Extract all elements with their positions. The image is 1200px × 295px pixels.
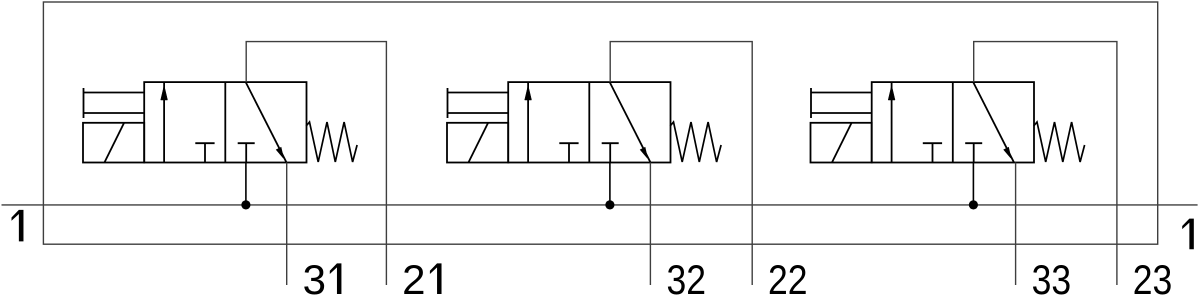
pilot/output wire 22 [610,42,752,285]
manifold frame [43,2,1157,244]
solenoid Y1 coil diagonal [105,123,125,162]
V3 flow path 2-3 diagonal with arrow (right square) [973,82,1014,163]
V3 flow path arrow 1-2 (left square) [891,83,893,163]
node 1 label (left) [12,210,24,242]
V3 blocked port T (right square) [965,143,982,162]
solenoid Y3 plunger bottom line [811,112,872,114]
V2 port 1 stub wire [609,163,611,205]
node 1 label (right) [1182,219,1194,250]
solenoid Y1 plunger top line [84,92,145,94]
V2 flow path arrow 1-2 (left square) [527,83,529,163]
svg-text:33: 33 [1032,256,1072,295]
svg-text:23: 23 [1133,256,1173,295]
pilot/output wire 21 [246,42,386,285]
V1 flow path arrow 1-2 (left square) [163,83,165,163]
port wire 33 [1015,163,1017,286]
solenoid Y3 plunger top line [811,92,872,94]
solenoid Y1 plunger bottom line [84,112,145,114]
svg-text:3: 3 [303,256,326,295]
V3 junction dot on bus [969,200,978,209]
V2 blocked port T (left square) [559,143,578,162]
V2 flow path 2-3 diagonal with arrow (right square) [610,82,651,163]
V1 junction dot on bus [241,200,250,209]
V3 port 1 stub wire [972,163,974,205]
solenoid Y2 plunger bottom line [448,112,509,114]
solenoid Y3 coil box [811,123,872,163]
svg-text:2: 2 [402,256,425,295]
solenoid Y2 coil box [447,123,508,163]
V1 return spring [306,122,357,162]
V1 port 1 stub wire [245,163,247,205]
port label 21 [402,256,441,295]
svg-text:32: 32 [667,256,707,295]
port wire 32 [649,163,651,286]
port label 31 [303,256,342,295]
valve V3 position divider [952,82,954,162]
V1 blocked port T (right square) [238,143,255,162]
solenoid Y1 coil box [83,123,144,163]
solenoid Y3 coil diagonal [832,123,852,162]
solenoid Y1 plunger bar [83,88,85,118]
valve V2 body (two position squares) [508,82,670,162]
solenoid Y2 coil diagonal [469,123,489,162]
solenoid Y2 plunger bar [447,88,449,118]
V1 blocked port T (left square) [195,143,214,162]
V2 blocked port T (right square) [602,143,619,162]
V2 junction dot on bus [605,200,614,209]
supply bus line 1 [2,204,1198,206]
V3 blocked port T (left square) [923,143,942,162]
pilot/output wire 23 [974,42,1117,285]
valve V1 position divider [224,82,226,162]
V1 flow path 2-3 diagonal with arrow (right square) [246,82,287,163]
V2 return spring [670,122,721,162]
V3 return spring [1034,122,1085,162]
solenoid Y3 plunger bar [810,88,812,118]
svg-text:22: 22 [768,256,808,295]
valve V2 position divider [588,82,590,162]
valve V1 body (two position squares) [144,82,306,162]
port wire 31 [286,163,288,286]
solenoid Y2 plunger top line [448,92,509,94]
valve V3 body (two position squares) [872,82,1034,162]
